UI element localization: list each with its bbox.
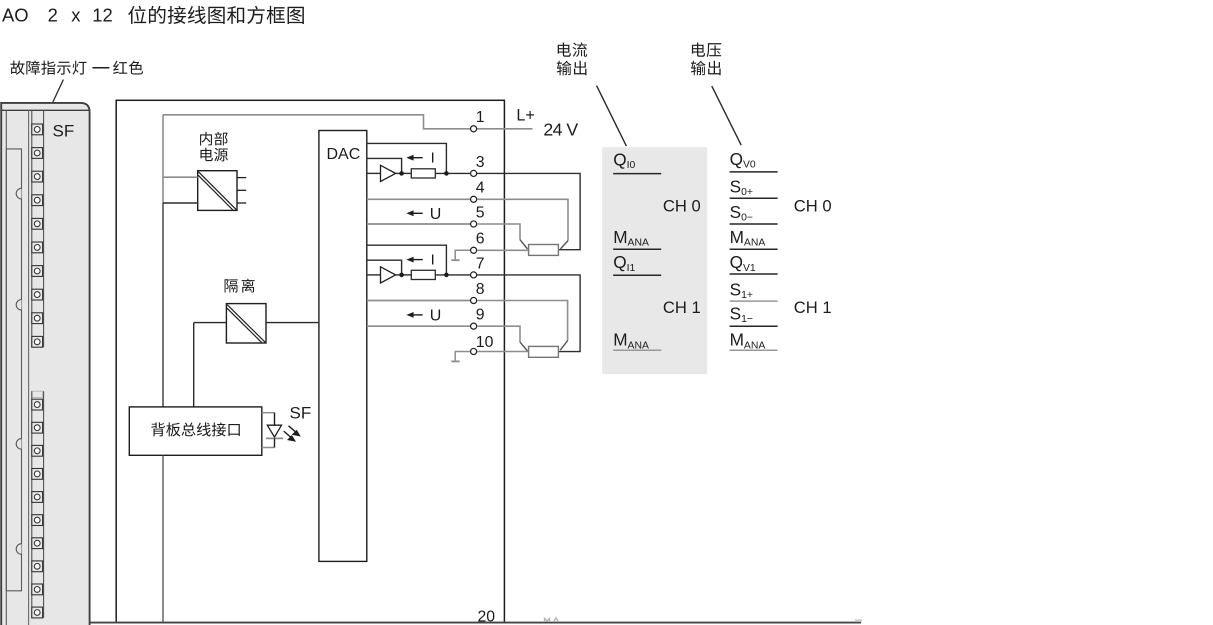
wire L+ from terminal 1 [477, 128, 533, 130]
wire amplifier output CH0 [396, 172, 412, 174]
terminal strip upper group [31, 110, 33, 347]
junction dot amplifier CH1 [399, 273, 404, 278]
voltage arrow U CH0 [412, 212, 423, 214]
junction dot amplifier CH0 [399, 171, 404, 176]
current output table background [602, 147, 707, 374]
block diagram enclosure box [116, 100, 504, 622]
wire terminal 6 to load CH0 [477, 249, 529, 251]
door notch 4 [16, 544, 21, 555]
wire terminal 9 voltage output [367, 325, 471, 327]
door notch 3 [16, 439, 21, 450]
svg-text:S0+: S0+ [730, 176, 753, 198]
door notch 2 [16, 300, 21, 311]
terminal 10 circle [471, 348, 477, 354]
wire terminal 5 sense line CH0 [477, 224, 520, 240]
wire terminal 4 sense line CH0 [477, 199, 568, 240]
svg-text:QV0: QV0 [730, 149, 756, 171]
svg-text:9: 9 [476, 307, 485, 324]
wire DAC to amplifier CH1 [367, 274, 381, 276]
door notch 1 [16, 188, 21, 199]
svg-text:7: 7 [476, 255, 485, 272]
isolation box U3 [226, 304, 266, 343]
LED emission arrow 1 [289, 426, 296, 432]
wire backplane box to M rail [162, 455, 164, 622]
leader line to SF LED [40, 80, 63, 130]
svg-text:QV1: QV1 [730, 252, 756, 274]
current direction arrow I CH1 [412, 259, 423, 261]
svg-text:I: I [431, 150, 435, 167]
svg-text:3: 3 [476, 154, 485, 171]
wire DAC feedback CH1 [367, 245, 447, 275]
terminal 6 ground hook [455, 250, 470, 260]
wire terminal 10 to load CH1 [477, 351, 529, 353]
wire bottom M rail [89, 622, 861, 624]
load resistor CH0 [529, 245, 559, 256]
svg-text:U: U [430, 206, 442, 223]
wire terminal 4 voltage sense [367, 198, 471, 200]
wire backplane to LED upper [262, 412, 275, 414]
label fault indicator - red [10, 61, 24, 75]
terminal 9 circle [471, 323, 477, 329]
svg-text:S1−: S1− [730, 304, 753, 326]
shunt resistor CH0 [411, 169, 435, 178]
leader current output [597, 86, 627, 146]
svg-text:4: 4 [476, 180, 485, 197]
wire terminal 3 to load CH0 [477, 173, 580, 249]
svg-text:6: 6 [476, 231, 485, 248]
svg-text:MANA: MANA [730, 227, 766, 249]
label internal power line2 [200, 148, 212, 161]
module door outline [6, 149, 21, 591]
LED SF diode D1 [274, 413, 276, 426]
svg-text:MANA: MANA [730, 330, 766, 352]
wire terminal 7 to load CH1 [477, 275, 580, 352]
svg-text:U: U [430, 308, 442, 325]
svg-text:5: 5 [476, 204, 485, 221]
svg-text:1: 1 [476, 109, 485, 126]
wire terminal 5 voltage output [367, 223, 471, 225]
wire amplifier output CH1 [396, 274, 412, 276]
wire DAC second output CH1 [367, 260, 402, 275]
terminal 10 ground hook [455, 352, 470, 362]
wire backplane to LED lower [262, 447, 275, 449]
svg-text:CH 0: CH 0 [663, 196, 701, 215]
module inner left line [5, 110, 7, 625]
power supply right tick 1 [237, 177, 246, 179]
leader voltage output [712, 86, 741, 145]
svg-text:CH 1: CH 1 [663, 298, 701, 317]
wire rail to power supply upper [163, 176, 198, 178]
wire resistor to terminal CH0 [435, 172, 470, 174]
wire isolation left [194, 322, 227, 324]
terminal 7 circle [471, 272, 477, 278]
power supply right tick 3 [237, 202, 246, 204]
shunt resistor CH1 [411, 270, 435, 279]
terminal 1 circle [471, 126, 477, 132]
label current output [558, 42, 571, 56]
junction dot feedback CH1 [444, 273, 449, 278]
backplane bus interface box [129, 407, 261, 455]
wire DAC to amplifier CH0 [367, 172, 381, 174]
svg-text:8: 8 [476, 281, 485, 298]
terminal 3 circle [471, 170, 477, 176]
label voltage output [692, 42, 705, 56]
wire terminal 8 voltage sense [367, 300, 471, 302]
power supply box U1 [198, 171, 237, 211]
svg-text:I: I [431, 252, 435, 269]
svg-text:SF: SF [53, 121, 75, 140]
wire isolation to DAC [266, 322, 319, 324]
wire resistor to terminal CH1 [435, 274, 470, 276]
module top cap line [1, 109, 89, 111]
svg-text:SF: SF [290, 404, 312, 423]
wire rail to power supply lower [163, 202, 198, 204]
load resistor CH1 [529, 346, 559, 357]
op-amp buffer CH1 [381, 267, 396, 283]
DAC box U2 [319, 131, 367, 562]
wire terminal 8 sense line CH1 [477, 301, 568, 341]
svg-text:S0−: S0− [730, 202, 753, 224]
terminal strip lower group [31, 391, 33, 618]
wire DAC feedback CH0 [367, 143, 447, 173]
svg-text:CH 1: CH 1 [794, 298, 832, 317]
svg-text:10: 10 [476, 334, 494, 351]
cropped text remnant left [545, 618, 559, 622]
op-amp buffer CH0 [381, 165, 396, 181]
terminal strip channel line [28, 110, 30, 625]
terminal 5 circle [471, 221, 477, 227]
terminal 6 circle [471, 247, 477, 253]
wire DAC second output CH0 [367, 158, 402, 173]
label internal power line1 [200, 132, 212, 146]
cropped text remnant right [855, 619, 862, 621]
current direction arrow I CH0 [412, 157, 423, 159]
junction dot feedback CH0 [444, 171, 449, 176]
terminal 4 circle [471, 196, 477, 202]
backplane bus interface label [151, 422, 165, 436]
wire terminal 9 sense line CH1 [477, 326, 520, 342]
terminal strip ghost cell [32, 391, 43, 397]
svg-text:AO2x12: AO2x12 [2, 5, 113, 26]
LED emission arrow 2 [284, 431, 291, 437]
voltage arrow U CH1 [412, 314, 423, 316]
svg-text:S1+: S1+ [730, 279, 753, 301]
wire left supply rail [162, 115, 164, 203]
svg-text:L+: L+ [516, 107, 534, 125]
wire isolation to backplane box [193, 323, 195, 408]
power supply right tick 2 [237, 189, 246, 191]
svg-text:24 V: 24 V [543, 119, 578, 139]
svg-text:CH 0: CH 0 [794, 196, 832, 215]
label isolation [225, 279, 238, 292]
svg-text:DAC: DAC [327, 146, 361, 163]
module front panel body [1, 103, 89, 625]
terminal 8 circle [471, 297, 477, 303]
